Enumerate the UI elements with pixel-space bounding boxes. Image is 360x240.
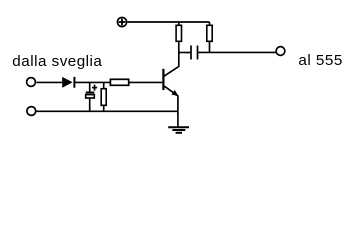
svg-text:dalla sveglia: dalla sveglia xyxy=(12,53,102,70)
svg-text:al 555: al 555 xyxy=(298,52,342,69)
